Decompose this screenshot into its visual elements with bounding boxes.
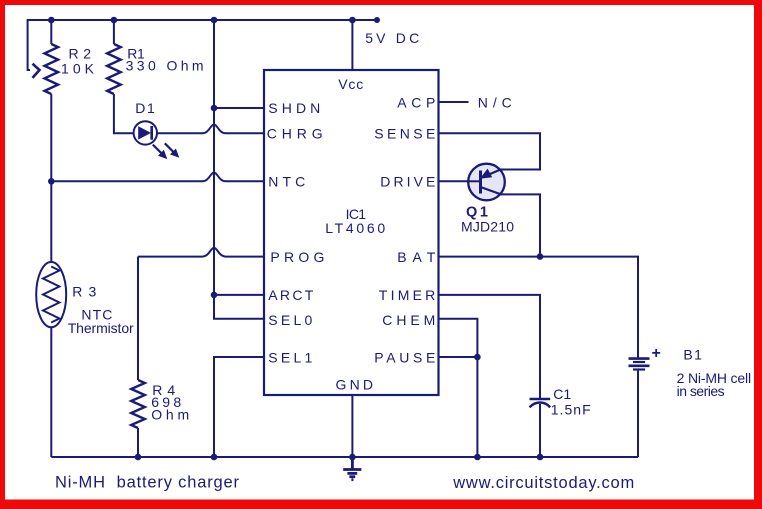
op-amp U1 IC1 LT4060 body (264, 70, 439, 395)
wire C1 to rail (539, 404, 541, 457)
svg-text:1.5nF: 1.5nF (551, 402, 591, 418)
svg-text:SENSE: SENSE (374, 126, 435, 142)
wire R1 top (113, 20, 115, 44)
wire R2 bottom to R3 (50, 94, 52, 263)
wire R2 top (50, 20, 52, 44)
wire shdn column (214, 20, 264, 319)
thermistor R3 (36, 262, 66, 327)
wire R3 bottom to rail (50, 327, 52, 457)
wire GND pin (351, 395, 353, 457)
node rail-R1 junction (111, 17, 118, 24)
node SHDN junction (211, 105, 218, 112)
wire R4 bottom to rail (137, 428, 139, 457)
wire SHDN pin (214, 107, 264, 109)
node GND-rail junction (349, 454, 356, 461)
node R2-R3-NTC junction (48, 178, 55, 185)
battery B1 (629, 359, 650, 370)
svg-text:NTC: NTC (268, 174, 305, 190)
wire R4 top (137, 257, 139, 380)
svg-text:ACP: ACP (397, 95, 435, 111)
wire Vcc pin (351, 20, 353, 70)
svg-text:DRIVE: DRIVE (380, 174, 435, 190)
wire Q1 collector to BAT (501, 194, 541, 256)
svg-text:Thermistor: Thermistor (68, 320, 134, 336)
wire top +5V rail (28, 19, 377, 21)
svg-text:+: + (652, 345, 661, 362)
resistor R2 (45, 44, 59, 94)
potentiometer wiper arrow (33, 64, 40, 78)
transistor Q1 (468, 164, 505, 201)
wire ARCT pin (214, 294, 264, 296)
wire TIMER pin to C1 (439, 295, 541, 398)
wire BAT pin to battery (439, 257, 639, 358)
node C1-rail junction (537, 454, 544, 461)
svg-text:PROG: PROG (270, 249, 324, 265)
resistor R1 (107, 44, 121, 94)
LED D1 emission arrows (153, 143, 180, 159)
node rail-R2 junction (48, 17, 55, 24)
svg-text:Ni-MH battery charger: Ni-MH battery charger (55, 474, 240, 492)
resistor R4 (131, 380, 145, 428)
node collector-BAT junction (537, 253, 544, 260)
node R4-rail junction (135, 454, 142, 461)
svg-text:10K: 10K (61, 61, 95, 77)
ground (343, 457, 361, 480)
wire DRIVE pin to Q1 base (439, 180, 470, 182)
wire D1 to CHRG pin (157, 125, 264, 134)
svg-text:GND: GND (336, 377, 374, 393)
node rail-column junction (211, 17, 218, 24)
node 5V terminal (374, 17, 380, 23)
svg-text:in series: in series (677, 383, 725, 399)
wire bottom ground rail (51, 456, 638, 458)
node rail-Vcc junction (349, 17, 356, 24)
node ARCT junction (211, 292, 218, 299)
wire PROG pin (138, 248, 264, 257)
svg-text:www.circuitstoday.com: www.circuitstoday.com (452, 474, 634, 492)
node CHEM-rail junction (474, 454, 481, 461)
wire battery to rail (637, 371, 639, 457)
svg-text:D1: D1 (135, 100, 155, 116)
wire ACP pin to N/C (439, 101, 469, 103)
LED D1 (134, 121, 157, 144)
capacitor C1 (530, 399, 551, 407)
wire NTC pin (51, 173, 264, 182)
wire R1 bottom to D1 (114, 94, 134, 133)
svg-text:BAT: BAT (397, 249, 435, 265)
wire R2 wiper stub (28, 19, 30, 70)
svg-text:Ohm: Ohm (151, 406, 189, 422)
wire SENSE pin to Q1 emitter (439, 133, 541, 169)
node SEL1-rail junction (211, 454, 218, 461)
node PAUSE-CHEM junction (474, 354, 481, 361)
wire SEL1 pin (214, 357, 264, 457)
svg-text:C1: C1 (553, 386, 571, 402)
wire PAUSE pin (439, 356, 478, 358)
svg-text:N/C: N/C (478, 95, 512, 111)
svg-text:Vcc: Vcc (338, 76, 363, 92)
svg-text:MJD210: MJD210 (461, 219, 514, 235)
wire CHEM pin (439, 319, 478, 457)
svg-text:TIMER: TIMER (379, 287, 436, 303)
